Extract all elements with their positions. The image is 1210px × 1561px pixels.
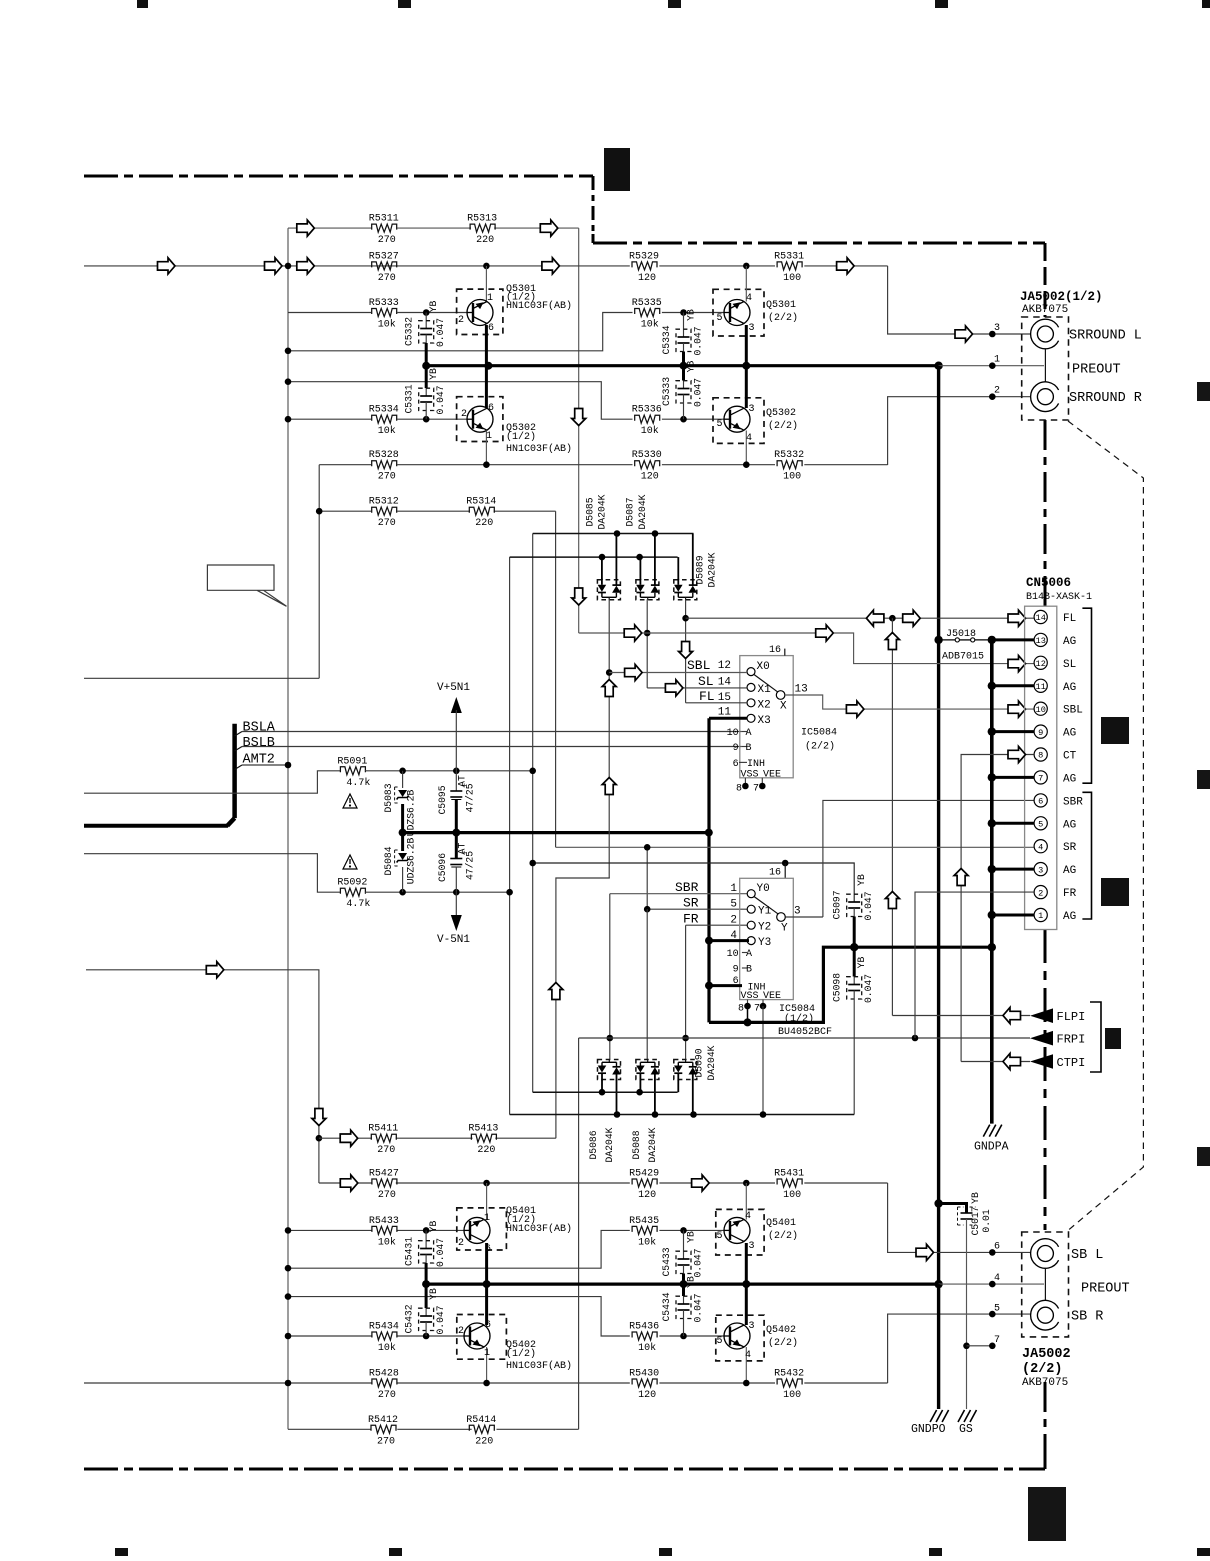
junction R5092 row xyxy=(399,889,406,896)
arrow CT xyxy=(1008,746,1026,762)
pin 8 upper IC xyxy=(744,778,746,786)
svg-text:0.01: 0.01 xyxy=(981,1209,992,1232)
resistor R5328 270 xyxy=(372,461,397,469)
IC5084 (1/2) body xyxy=(740,878,794,999)
junction thick preout x=938.6 xyxy=(934,362,942,370)
resistor R5430 120 xyxy=(632,1379,657,1387)
svg-text:4: 4 xyxy=(1038,842,1043,852)
arrow SL a xyxy=(624,625,642,641)
svg-text:AKB7075: AKB7075 xyxy=(1022,304,1068,316)
wire row y=1268.2 jog to R5435 xyxy=(288,1230,630,1268)
ground GS xyxy=(958,1410,965,1422)
svg-text:5: 5 xyxy=(717,419,723,430)
svg-text:R5436: R5436 xyxy=(629,1322,659,1333)
svg-text:AKB7075: AKB7075 xyxy=(1022,1377,1068,1389)
thick bus left y=825.8 xyxy=(84,824,228,828)
pin Y0 xyxy=(747,890,755,898)
svg-text:11: 11 xyxy=(1036,682,1046,692)
svg-text:14: 14 xyxy=(1036,613,1046,623)
svg-text:12: 12 xyxy=(1036,659,1046,669)
arrow left row y=970 xyxy=(206,962,224,978)
wire SR row y=846.5 xyxy=(556,846,1034,848)
svg-text:270: 270 xyxy=(378,472,396,483)
svg-text:3: 3 xyxy=(749,323,755,334)
svg-text:6: 6 xyxy=(1038,797,1043,807)
resistor R5428 270 xyxy=(372,1379,397,1387)
arrow FLPI left xyxy=(1003,1007,1021,1023)
resistor R5313 220 xyxy=(470,224,495,232)
pin X3 xyxy=(747,714,755,722)
wire row B y=266 xyxy=(84,265,630,267)
svg-text:VSS: VSS xyxy=(741,770,759,781)
svg-text:0.047: 0.047 xyxy=(693,1248,704,1277)
CN5006 pin 11 AG xyxy=(1034,679,1047,692)
svg-text:C5095: C5095 xyxy=(437,785,448,814)
arrow R5427 xyxy=(340,1175,358,1191)
diode pair D5086 DA204K lower xyxy=(598,1060,621,1080)
svg-text:INH: INH xyxy=(747,759,765,770)
junction SRROUND R pin2 xyxy=(989,393,996,400)
svg-text:V-5N1: V-5N1 xyxy=(437,934,470,946)
wire left row y=793 to R5091 xyxy=(84,771,341,793)
svg-text:YB: YB xyxy=(428,1288,439,1300)
svg-text:4: 4 xyxy=(745,1211,751,1222)
junction pin16 lower x=785 xyxy=(782,860,789,867)
svg-text:220: 220 xyxy=(475,518,493,529)
svg-text:5: 5 xyxy=(717,313,723,324)
resistor R5334 10k xyxy=(372,415,397,423)
black marker square near CN5006 pin2 xyxy=(1101,878,1129,906)
junction X0 row xyxy=(606,669,613,676)
wire FRPI row y=1038 xyxy=(579,1037,1030,1039)
svg-text:C5097: C5097 xyxy=(832,890,843,919)
svg-text:R5327: R5327 xyxy=(369,251,399,262)
arrow up x=892 a xyxy=(885,633,899,650)
arrow SL c xyxy=(1008,656,1026,672)
svg-text:C5333: C5333 xyxy=(661,377,672,406)
wire preout to JA5002 xyxy=(939,365,1044,367)
transistor Q5301 (2/2) xyxy=(713,289,764,336)
switch wiper lower xyxy=(754,897,778,914)
svg-text:VEE: VEE xyxy=(763,770,781,781)
CN5006 pin 8 CT xyxy=(1034,748,1047,761)
thick bus bar AMT2 vertical xyxy=(232,724,237,818)
junction R5428 x=288 xyxy=(285,1380,292,1387)
arrow up x=609 a xyxy=(602,680,616,697)
black marker square near CN5006 pin9 xyxy=(1101,717,1129,744)
svg-text:D5083: D5083 xyxy=(383,783,394,812)
svg-text:Y: Y xyxy=(781,923,788,935)
wire D5089 common down xyxy=(685,599,687,702)
junction R5430 x=746 xyxy=(743,1380,750,1387)
wire D5088 common xyxy=(646,909,648,1059)
svg-text:4: 4 xyxy=(994,1273,1000,1284)
wire Y output to SBR pin3 path xyxy=(786,916,823,918)
svg-text:UDZS6.2B: UDZS6.2B xyxy=(406,790,417,837)
svg-text:9: 9 xyxy=(733,965,739,976)
junction FR row x=533 xyxy=(529,860,536,867)
junction FRPI x=915 xyxy=(912,1035,919,1042)
resistor R5336 10k xyxy=(635,415,660,423)
arrow FL right b xyxy=(1008,610,1026,626)
wire SBR output row y=800.4 xyxy=(823,800,1034,917)
arrow SBL pin10 a xyxy=(846,701,864,717)
wire SR branch to Y1 xyxy=(647,908,747,910)
svg-text:3: 3 xyxy=(749,1321,755,1332)
wire BSLA to IC pin A xyxy=(242,731,741,733)
svg-text:4: 4 xyxy=(746,433,752,444)
svg-text:R5314: R5314 xyxy=(466,497,496,508)
preout bus SB thick y=1284.1 xyxy=(424,1282,939,1285)
svg-text:15: 15 xyxy=(718,692,731,704)
connector JA5002 (2/2) AKB7075 xyxy=(1022,1232,1069,1337)
svg-text:8: 8 xyxy=(738,1004,744,1015)
junction R5330 row x=746 xyxy=(743,461,750,468)
resistor R5435 10k xyxy=(632,1226,657,1234)
svg-text:GNDPO: GNDPO xyxy=(911,1423,946,1436)
svg-text:SB R: SB R xyxy=(1071,1310,1103,1325)
svg-text:0.047: 0.047 xyxy=(435,318,446,347)
arrow SBL xyxy=(625,664,643,680)
CN5006 pin 5 AG xyxy=(1034,817,1047,830)
svg-text:D5090: D5090 xyxy=(694,1048,705,1077)
resistor R5429 120 xyxy=(632,1179,657,1187)
svg-text:13: 13 xyxy=(1036,636,1046,646)
junction C5434 bottom xyxy=(680,1333,687,1340)
CN5006 pin 2 FR xyxy=(1034,886,1047,899)
capacitor C5433 0.047 xyxy=(683,1230,685,1259)
AG bus stub xyxy=(992,822,1034,825)
transistor Q5401 (2/2) xyxy=(716,1209,764,1255)
svg-text:R5334: R5334 xyxy=(369,405,399,416)
svg-text:7: 7 xyxy=(754,1004,760,1015)
svg-text:4: 4 xyxy=(746,293,752,304)
svg-text:HN1C03F(AB): HN1C03F(AB) xyxy=(506,1223,572,1235)
junction x=288 y=1336 xyxy=(285,1333,292,1340)
wire SB L lead xyxy=(888,1183,1031,1252)
power net V-5N1 xyxy=(455,892,457,916)
junction SB R pin5 xyxy=(989,1311,996,1318)
resistor R5091 4.7k xyxy=(340,767,365,775)
svg-text:JA5002: JA5002 xyxy=(1022,1347,1071,1362)
pin 7 upper IC xyxy=(761,778,763,786)
svg-text:BSLA: BSLA xyxy=(243,721,276,736)
svg-text:5: 5 xyxy=(730,899,737,911)
transistor Q5301 (1/2) HN1C03F(AB) xyxy=(457,289,503,334)
svg-text:AG: AG xyxy=(1063,911,1076,923)
bracket CN5006 lower xyxy=(1082,792,1091,919)
lower diode legs xyxy=(601,1080,603,1093)
svg-text:DA204K: DA204K xyxy=(707,552,718,587)
svg-text:3: 3 xyxy=(749,404,755,415)
junction C5334 top xyxy=(680,309,687,316)
svg-text:SBL: SBL xyxy=(687,658,710,673)
svg-text:D5089: D5089 xyxy=(694,555,705,584)
svg-text:120: 120 xyxy=(638,273,656,284)
svg-text:0.047: 0.047 xyxy=(693,326,704,355)
wire pin8 lower down thick xyxy=(747,1006,749,1022)
svg-text:FR: FR xyxy=(1063,888,1077,900)
svg-text:JA5002(1/2): JA5002(1/2) xyxy=(1020,290,1103,304)
signal arrow row A left xyxy=(297,220,315,236)
svg-text:120: 120 xyxy=(638,1390,656,1401)
arrow down x=578.7 lower xyxy=(572,588,586,605)
resistor R5314 220 xyxy=(469,507,494,515)
svg-text:C5432: C5432 xyxy=(404,1304,415,1333)
svg-text:SL: SL xyxy=(1063,659,1076,671)
svg-text:270: 270 xyxy=(377,1145,395,1156)
svg-text:R5429: R5429 xyxy=(629,1169,659,1180)
svg-text:C5331: C5331 xyxy=(404,384,415,413)
svg-text:R5414: R5414 xyxy=(466,1415,496,1426)
thick vertical to GNDPO xyxy=(937,1284,940,1409)
svg-text:4: 4 xyxy=(745,1350,751,1361)
zener D5083 UDZS6.2B xyxy=(402,771,404,788)
svg-text:(2/2): (2/2) xyxy=(768,420,798,432)
svg-text:R5333: R5333 xyxy=(369,298,399,309)
svg-text:R5432: R5432 xyxy=(774,1369,804,1380)
svg-text:AG: AG xyxy=(1063,865,1076,877)
diode pair D5089 DA204K xyxy=(677,557,679,580)
ground GNDPA xyxy=(983,1125,990,1137)
svg-text:120: 120 xyxy=(638,1190,656,1201)
svg-text:C5098: C5098 xyxy=(832,973,843,1002)
svg-text:47/25: 47/25 xyxy=(464,851,475,880)
svg-text:CN5006: CN5006 xyxy=(1026,576,1071,590)
wire vertical x=319 R5328 feed xyxy=(318,465,320,679)
CN5006 pin 12 SL xyxy=(1034,656,1047,669)
svg-text:10k: 10k xyxy=(378,1236,396,1248)
thick Y3 wire xyxy=(709,939,749,942)
wire R5412 row y=1429.3 xyxy=(288,1428,372,1430)
transistor Q5402 (2/2) xyxy=(716,1315,764,1361)
wire FLPI row xyxy=(892,1015,1030,1017)
arrow SL b xyxy=(816,625,834,641)
svg-text:9: 9 xyxy=(1038,728,1043,738)
svg-text:FL: FL xyxy=(699,689,715,704)
svg-text:D5085: D5085 xyxy=(584,497,595,526)
wire FR row y=863 xyxy=(533,863,855,902)
wire vertical x=579.2 FRPI feed to R5414 xyxy=(578,1038,580,1429)
svg-text:10k: 10k xyxy=(641,319,659,331)
svg-text:10k: 10k xyxy=(638,1236,656,1248)
svg-text:(2/2): (2/2) xyxy=(1022,1362,1063,1377)
node CTPI xyxy=(1030,1054,1053,1069)
svg-text:R5092: R5092 xyxy=(337,878,367,889)
wire vertical x=509.6 column xyxy=(509,557,511,1114)
junction Y1 x=647 xyxy=(644,906,651,913)
wire left row y=970 xyxy=(86,970,319,1183)
wire R5433 row y=1230.4 xyxy=(288,1229,372,1231)
svg-text:270: 270 xyxy=(378,1190,396,1201)
wire left row y=854 to R5092 xyxy=(84,854,341,893)
svg-text:HN1C03F(AB): HN1C03F(AB) xyxy=(506,300,572,312)
wire R5092 row xyxy=(365,891,509,893)
svg-text:0.047: 0.047 xyxy=(863,974,874,1003)
resistor R5431 100 xyxy=(777,1179,802,1187)
svg-text:YB: YB xyxy=(428,368,439,380)
svg-text:R5328: R5328 xyxy=(369,450,399,461)
wire vertical x=555.6 R5314 to SR row xyxy=(555,511,557,847)
svg-text:270: 270 xyxy=(378,1390,396,1401)
svg-text:YB: YB xyxy=(428,1221,439,1233)
shield border corner pieces xyxy=(584,175,593,178)
main thick vertical x=938.6 xyxy=(937,366,940,1284)
resistor R5330 120 xyxy=(635,461,660,469)
svg-text:11: 11 xyxy=(718,707,732,719)
svg-text:AG: AG xyxy=(1063,682,1076,694)
svg-text:10k: 10k xyxy=(641,425,659,437)
wire diode feed row y=557.1 xyxy=(510,556,678,558)
arrow SB L xyxy=(916,1244,934,1260)
wire SRROUND R lead xyxy=(888,397,1031,465)
empty callout box xyxy=(207,565,286,606)
svg-text:10k: 10k xyxy=(378,425,396,437)
svg-text:DA204K: DA204K xyxy=(647,1127,658,1162)
svg-text:100: 100 xyxy=(783,273,801,284)
svg-text:R5433: R5433 xyxy=(369,1216,399,1227)
resistor R5311 270 xyxy=(372,224,397,232)
arrow up x=609 b xyxy=(602,778,616,795)
svg-text:HN1C03F(AB): HN1C03F(AB) xyxy=(506,1360,572,1372)
svg-text:B: B xyxy=(746,965,752,976)
preout bus top thick y=365.7 xyxy=(424,364,939,367)
svg-text:C5096: C5096 xyxy=(437,853,448,882)
jack SRROUND R xyxy=(1031,382,1059,412)
junction R5429 row x=746 xyxy=(743,1180,750,1187)
black index block top center xyxy=(604,148,630,191)
junction AMT2 x=288 xyxy=(285,762,292,769)
thick bus INH corner path xyxy=(709,947,992,1022)
connector area dashed boundary xyxy=(1068,421,1143,1230)
wire X output to SBL pin10 xyxy=(785,695,1034,709)
wire main vertical bus x=288 xyxy=(287,228,289,1429)
arrow R5429 out xyxy=(692,1175,710,1191)
svg-text:IC5084: IC5084 xyxy=(801,728,837,739)
svg-text:(2/2): (2/2) xyxy=(768,312,798,324)
transistor Q5302 (2/2) xyxy=(713,398,764,444)
svg-text:(2/2): (2/2) xyxy=(768,1337,798,1349)
jack SB R xyxy=(1031,1300,1059,1330)
svg-text:SBL: SBL xyxy=(1063,705,1083,717)
svg-text:10k: 10k xyxy=(378,319,396,331)
svg-text:Q5302: Q5302 xyxy=(766,408,796,419)
CN5006 pin 3 AG xyxy=(1034,863,1047,876)
svg-text:6: 6 xyxy=(733,759,739,770)
svg-text:0.047: 0.047 xyxy=(693,378,704,407)
thick X3 wire xyxy=(709,717,747,720)
arrow FL right a xyxy=(903,610,921,626)
svg-text:R5412: R5412 xyxy=(368,1415,398,1426)
pin 8 lower IC xyxy=(747,1000,749,1007)
svg-text:47/25: 47/25 xyxy=(464,783,475,812)
svg-text:YB: YB xyxy=(686,1276,697,1288)
svg-text:10: 10 xyxy=(1036,705,1046,715)
wire AMT2 xyxy=(242,764,288,766)
wire SL branch to X1 xyxy=(647,687,747,689)
svg-text:7: 7 xyxy=(994,1335,1000,1346)
jack SB L xyxy=(1031,1239,1059,1269)
junction FRPI row x=610 xyxy=(607,1035,614,1042)
wire pin7 row xyxy=(967,1345,993,1347)
wire vertical x=532.7 supply column xyxy=(532,534,534,1093)
wire FL vertical to FLPI xyxy=(891,618,893,1015)
capacitor C5432 0.047 xyxy=(425,1284,428,1308)
svg-text:5: 5 xyxy=(717,1336,723,1347)
junction x=288 y=382 xyxy=(285,378,292,385)
warning symbol lower xyxy=(343,855,357,869)
svg-text:1: 1 xyxy=(487,293,493,304)
pin16 stub lower IC xyxy=(784,863,786,878)
svg-text:V+5N1: V+5N1 xyxy=(437,682,470,694)
svg-text:R5091: R5091 xyxy=(337,756,367,767)
AG bus stub xyxy=(992,868,1034,871)
svg-text:R5431: R5431 xyxy=(774,1169,804,1180)
junction row B x=746 xyxy=(743,263,750,270)
junction C5433 top xyxy=(680,1227,687,1234)
pin INH upper xyxy=(739,761,747,763)
arrow down x=319 xyxy=(312,1109,326,1126)
arrow down x=685.6 xyxy=(679,642,693,659)
capacitor C5434 0.047 xyxy=(682,1284,685,1296)
svg-text:SR: SR xyxy=(1063,842,1077,854)
svg-text:R5312: R5312 xyxy=(369,497,399,508)
capacitor C5431 0.047 xyxy=(425,1230,427,1248)
jack SRROUND L xyxy=(1031,319,1059,349)
CN5006 pin 13 AG xyxy=(1034,633,1047,646)
shield border dash-dot top xyxy=(84,175,593,178)
svg-text:16: 16 xyxy=(769,868,781,879)
shield border dash-dot step vertical xyxy=(592,176,595,243)
black marker square near FRPI xyxy=(1105,1028,1121,1049)
junction pin7 row xyxy=(963,1343,970,1350)
junction x=288 y=351 xyxy=(285,348,292,355)
CN5006 pin 14 FL xyxy=(1034,610,1047,623)
svg-text:DA204K: DA204K xyxy=(597,494,608,529)
svg-text:X3: X3 xyxy=(758,715,771,727)
svg-text:1: 1 xyxy=(1038,911,1043,921)
pin INH lower thick xyxy=(709,984,742,987)
AG bus stub xyxy=(992,638,1034,641)
wire vertical x=556 SBL feed to R5413 xyxy=(556,878,610,1138)
junction C5333 bottom xyxy=(680,416,687,423)
svg-text:D5084: D5084 xyxy=(383,846,394,875)
svg-text:C5017: C5017 xyxy=(970,1206,981,1235)
wire R5334 base row y=419.2 xyxy=(288,418,371,420)
svg-text:X0: X0 xyxy=(757,661,770,673)
wire diode feed row y=533.5 xyxy=(533,533,694,535)
svg-text:FLPI: FLPI xyxy=(1057,1010,1086,1024)
svg-text:(1/2): (1/2) xyxy=(506,431,536,443)
svg-text:10k: 10k xyxy=(638,1342,656,1354)
transistor Q5302 (1/2) HN1C03F(AB) xyxy=(457,397,503,442)
svg-text:Q5402: Q5402 xyxy=(766,1325,796,1336)
svg-text:16: 16 xyxy=(769,645,781,656)
svg-text:8: 8 xyxy=(736,784,742,795)
resistor R5327 270 xyxy=(372,262,397,270)
diode pair D5090 DA204K lower xyxy=(674,1060,697,1080)
svg-text:100: 100 xyxy=(783,472,801,483)
svg-text:4.7k: 4.7k xyxy=(346,777,370,789)
AG bus stub xyxy=(992,776,1034,779)
junction x=288 y=1230 xyxy=(285,1227,292,1234)
svg-text:1: 1 xyxy=(730,883,737,895)
warning symbol upper xyxy=(343,794,357,808)
wire row A y=228 xyxy=(288,227,371,229)
svg-text:R5411: R5411 xyxy=(368,1124,398,1135)
AG bus stub xyxy=(992,730,1034,733)
svg-text:J5018: J5018 xyxy=(946,629,976,640)
